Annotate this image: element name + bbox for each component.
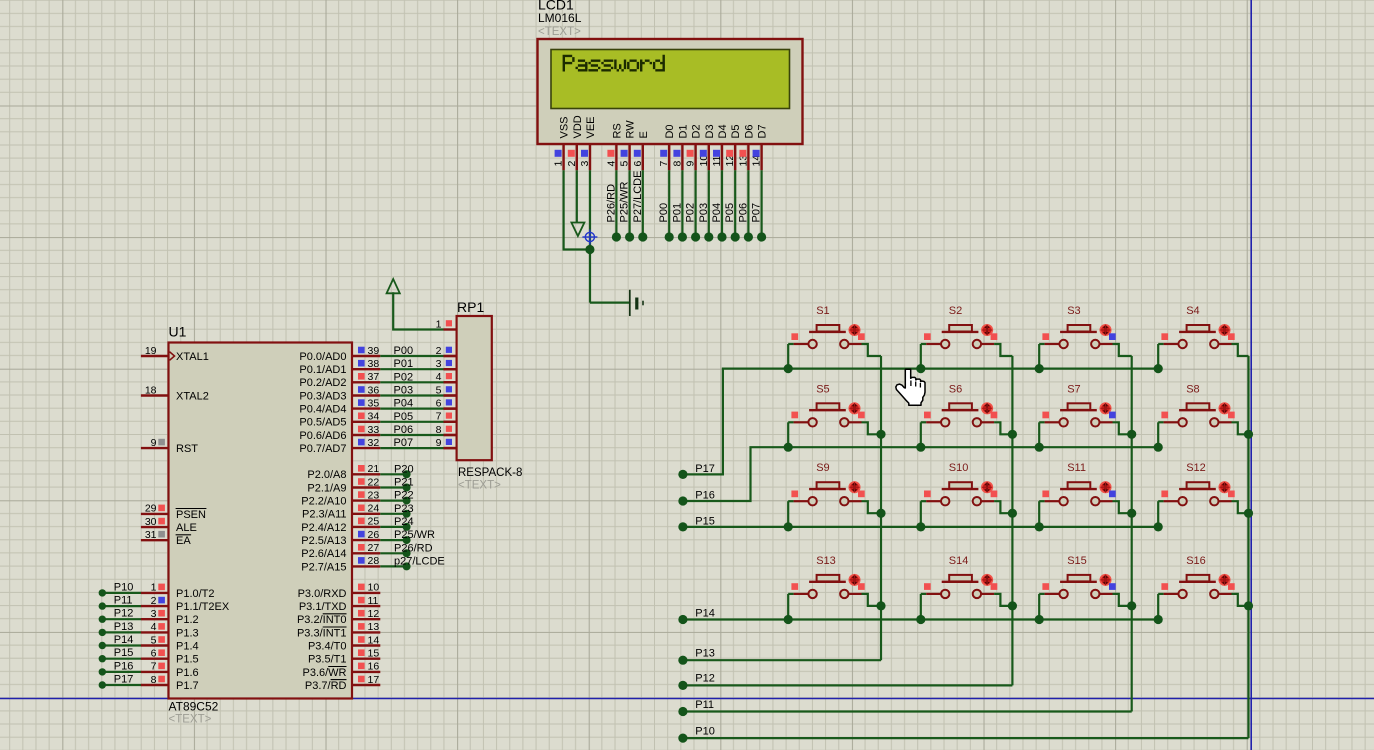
svg-text:P13: P13 (114, 621, 134, 633)
svg-text:P1.5: P1.5 (176, 654, 199, 666)
svg-text:2: 2 (436, 345, 442, 357)
svg-text:<TEXT>: <TEXT> (538, 26, 581, 38)
svg-text:P3.3/INT1: P3.3/INT1 (297, 627, 347, 639)
svg-text:P12: P12 (114, 608, 134, 620)
svg-text:P0.5/AD5: P0.5/AD5 (299, 417, 346, 429)
svg-text:AT89C52: AT89C52 (169, 700, 219, 714)
svg-text:10: 10 (368, 582, 380, 594)
svg-text:S16: S16 (1186, 555, 1206, 567)
svg-text:RW: RW (625, 120, 637, 139)
svg-text:29: 29 (145, 503, 157, 515)
svg-text:6: 6 (151, 648, 157, 660)
svg-text:P04: P04 (711, 203, 723, 223)
svg-text:8: 8 (151, 674, 157, 686)
svg-text:39: 39 (368, 345, 380, 357)
svg-text:P26/RD: P26/RD (605, 184, 617, 223)
svg-text:P00: P00 (658, 203, 670, 223)
svg-text:5: 5 (619, 161, 631, 167)
svg-text:D7: D7 (757, 124, 769, 138)
svg-text:33: 33 (368, 424, 380, 436)
svg-text:E: E (638, 131, 650, 138)
svg-text:P14: P14 (695, 608, 715, 620)
svg-text:P22: P22 (394, 490, 414, 502)
svg-text:D4: D4 (717, 124, 729, 138)
svg-text:S5: S5 (816, 383, 829, 395)
svg-text:P20: P20 (394, 463, 414, 475)
svg-text:LM016L: LM016L (538, 11, 582, 25)
svg-text:S13: S13 (816, 555, 836, 567)
svg-text:P1.3: P1.3 (176, 627, 199, 639)
svg-text:25: 25 (368, 516, 380, 528)
svg-text:17: 17 (368, 674, 380, 686)
svg-text:4: 4 (436, 371, 442, 383)
svg-text:15: 15 (368, 648, 380, 660)
svg-text:EA: EA (176, 535, 191, 547)
svg-text:6: 6 (436, 397, 442, 409)
svg-text:7: 7 (151, 661, 157, 673)
svg-text:D2: D2 (691, 124, 703, 138)
svg-text:26: 26 (368, 529, 380, 541)
svg-text:S9: S9 (816, 462, 829, 474)
svg-text:P12: P12 (695, 673, 715, 685)
svg-text:1: 1 (151, 582, 157, 594)
svg-text:VEE: VEE (585, 116, 597, 138)
svg-text:5: 5 (151, 634, 157, 646)
svg-text:P06: P06 (737, 203, 749, 223)
svg-text:11: 11 (711, 155, 723, 166)
svg-text:S15: S15 (1067, 555, 1087, 567)
svg-text:37: 37 (368, 371, 380, 383)
svg-text:D1: D1 (677, 124, 689, 138)
svg-text:P2.5/A13: P2.5/A13 (301, 535, 346, 547)
svg-text:36: 36 (368, 384, 380, 396)
svg-text:S8: S8 (1186, 383, 1199, 395)
svg-text:P2.2/A10: P2.2/A10 (301, 496, 346, 508)
svg-text:P21: P21 (394, 477, 414, 489)
svg-text:P24: P24 (394, 516, 414, 528)
svg-text:19: 19 (145, 345, 157, 357)
svg-text:P3.0/RXD: P3.0/RXD (298, 588, 347, 600)
svg-text:P05: P05 (724, 203, 736, 223)
svg-text:P01: P01 (671, 203, 683, 223)
svg-text:P23: P23 (394, 503, 414, 515)
svg-text:8: 8 (436, 424, 442, 436)
svg-text:7: 7 (436, 411, 442, 423)
svg-text:P2.7/A15: P2.7/A15 (301, 561, 346, 573)
svg-text:P17: P17 (695, 463, 715, 475)
svg-text:28: 28 (368, 555, 380, 567)
svg-text:12: 12 (368, 608, 380, 620)
svg-text:2: 2 (566, 161, 578, 167)
svg-text:2: 2 (151, 595, 157, 607)
svg-text:6: 6 (632, 161, 644, 167)
svg-text:<TEXT>: <TEXT> (458, 480, 501, 492)
svg-text:P2.1/A9: P2.1/A9 (307, 482, 346, 494)
svg-text:1: 1 (553, 161, 565, 167)
svg-text:23: 23 (368, 489, 380, 501)
svg-text:p27/LCDE: p27/LCDE (394, 555, 445, 567)
svg-text:31: 31 (145, 529, 157, 541)
svg-text:P10: P10 (695, 725, 715, 737)
svg-text:P1.7: P1.7 (176, 680, 199, 692)
svg-text:P1.6: P1.6 (176, 667, 199, 679)
svg-text:P01: P01 (394, 358, 414, 370)
svg-text:P10: P10 (114, 581, 134, 593)
svg-text:13: 13 (368, 621, 380, 633)
svg-text:D6: D6 (743, 124, 755, 138)
svg-text:<TEXT>: <TEXT> (169, 714, 212, 726)
svg-text:P3.1/TXD: P3.1/TXD (299, 601, 347, 613)
svg-text:RESPACK-8: RESPACK-8 (458, 467, 522, 479)
svg-text:P3.7/RD: P3.7/RD (305, 680, 347, 692)
svg-text:P05: P05 (394, 411, 414, 423)
svg-text:P0.1/AD1: P0.1/AD1 (299, 364, 346, 376)
svg-text:VSS: VSS (559, 116, 571, 138)
svg-text:P0.0/AD0: P0.0/AD0 (299, 351, 346, 363)
svg-text:RST: RST (176, 443, 198, 455)
svg-text:8: 8 (671, 161, 683, 167)
svg-text:P07: P07 (394, 437, 414, 449)
svg-text:P15: P15 (114, 647, 134, 659)
svg-text:18: 18 (145, 384, 157, 396)
svg-text:P06: P06 (394, 424, 414, 436)
svg-text:S12: S12 (1186, 462, 1206, 474)
svg-text:P16: P16 (695, 490, 715, 502)
svg-text:P13: P13 (695, 648, 715, 660)
svg-text:P1.0/T2: P1.0/T2 (176, 588, 215, 600)
svg-text:P11: P11 (695, 699, 714, 711)
svg-text:P26/RD: P26/RD (394, 542, 433, 554)
svg-text:9: 9 (436, 437, 442, 449)
svg-text:P16: P16 (114, 660, 134, 672)
svg-text:P2.0/A8: P2.0/A8 (307, 469, 346, 481)
svg-text:S1: S1 (816, 305, 829, 317)
svg-text:D0: D0 (664, 124, 676, 138)
svg-text:32: 32 (368, 437, 380, 449)
svg-text:21: 21 (368, 463, 380, 475)
svg-text:P0.6/AD6: P0.6/AD6 (299, 430, 346, 442)
svg-text:P03: P03 (394, 385, 414, 397)
svg-text:3: 3 (151, 608, 157, 620)
svg-text:P25/WR: P25/WR (619, 181, 631, 222)
svg-text:XTAL1: XTAL1 (176, 351, 209, 363)
svg-text:P3.2/INT0: P3.2/INT0 (297, 614, 347, 626)
svg-text:22: 22 (368, 476, 380, 488)
svg-text:P00: P00 (394, 345, 414, 357)
svg-text:11: 11 (368, 595, 379, 607)
svg-text:34: 34 (368, 411, 380, 423)
svg-text:PSEN: PSEN (176, 509, 206, 521)
svg-text:P1.1/T2EX: P1.1/T2EX (176, 601, 230, 613)
svg-text:P04: P04 (394, 398, 414, 410)
svg-text:14: 14 (368, 634, 380, 646)
svg-text:24: 24 (368, 503, 380, 515)
svg-text:ALE: ALE (176, 522, 197, 534)
svg-text:P03: P03 (698, 203, 710, 223)
svg-text:P11: P11 (114, 595, 133, 607)
svg-text:P3.4/T0: P3.4/T0 (308, 640, 347, 652)
svg-text:16: 16 (368, 661, 380, 673)
svg-text:9: 9 (151, 437, 157, 449)
svg-text:RP1: RP1 (457, 299, 484, 315)
svg-text:P07: P07 (751, 203, 763, 223)
svg-text:P3.6/WR: P3.6/WR (302, 667, 346, 679)
svg-text:4: 4 (605, 161, 617, 167)
svg-text:35: 35 (368, 397, 380, 409)
svg-text:P14: P14 (114, 634, 134, 646)
svg-text:P2.6/A14: P2.6/A14 (301, 548, 346, 560)
svg-text:XTAL2: XTAL2 (176, 390, 209, 402)
svg-text:3: 3 (579, 161, 591, 167)
svg-text:P0.7/AD7: P0.7/AD7 (299, 443, 346, 455)
svg-text:S7: S7 (1067, 383, 1080, 395)
svg-text:P2.3/A11: P2.3/A11 (302, 509, 346, 521)
svg-text:S4: S4 (1186, 305, 1199, 317)
svg-text:P25/WR: P25/WR (394, 529, 435, 541)
svg-text:30: 30 (145, 516, 157, 528)
svg-text:VDD: VDD (572, 115, 584, 138)
svg-text:38: 38 (368, 358, 380, 370)
svg-text:P0.2/AD2: P0.2/AD2 (299, 377, 346, 389)
svg-text:P2.4/A12: P2.4/A12 (301, 522, 346, 534)
svg-text:9: 9 (685, 161, 697, 167)
svg-text:S3: S3 (1067, 305, 1080, 317)
svg-text:27: 27 (368, 542, 380, 554)
svg-text:D5: D5 (730, 124, 742, 138)
svg-text:S14: S14 (949, 555, 969, 567)
svg-text:P3.5/T1: P3.5/T1 (308, 654, 347, 666)
svg-text:RS: RS (611, 123, 623, 138)
svg-text:P0.3/AD3: P0.3/AD3 (299, 390, 346, 402)
svg-text:S6: S6 (949, 383, 962, 395)
svg-text:P02: P02 (394, 371, 414, 383)
svg-text:P1.4: P1.4 (176, 640, 199, 652)
svg-text:D3: D3 (704, 124, 716, 138)
svg-text:P1.2: P1.2 (176, 614, 199, 626)
svg-text:U1: U1 (169, 324, 187, 340)
svg-text:4: 4 (151, 621, 157, 633)
svg-text:S10: S10 (949, 462, 969, 474)
svg-text:S11: S11 (1067, 462, 1086, 474)
svg-text:7: 7 (658, 161, 670, 167)
svg-text:5: 5 (436, 384, 442, 396)
svg-text:3: 3 (436, 358, 442, 370)
svg-text:P0.4/AD4: P0.4/AD4 (299, 404, 346, 416)
svg-text:P02: P02 (685, 203, 697, 223)
svg-text:S2: S2 (949, 305, 962, 317)
svg-text:P15: P15 (695, 516, 715, 528)
svg-text:P17: P17 (114, 674, 134, 686)
svg-text:P27/LCDE: P27/LCDE (632, 171, 644, 223)
